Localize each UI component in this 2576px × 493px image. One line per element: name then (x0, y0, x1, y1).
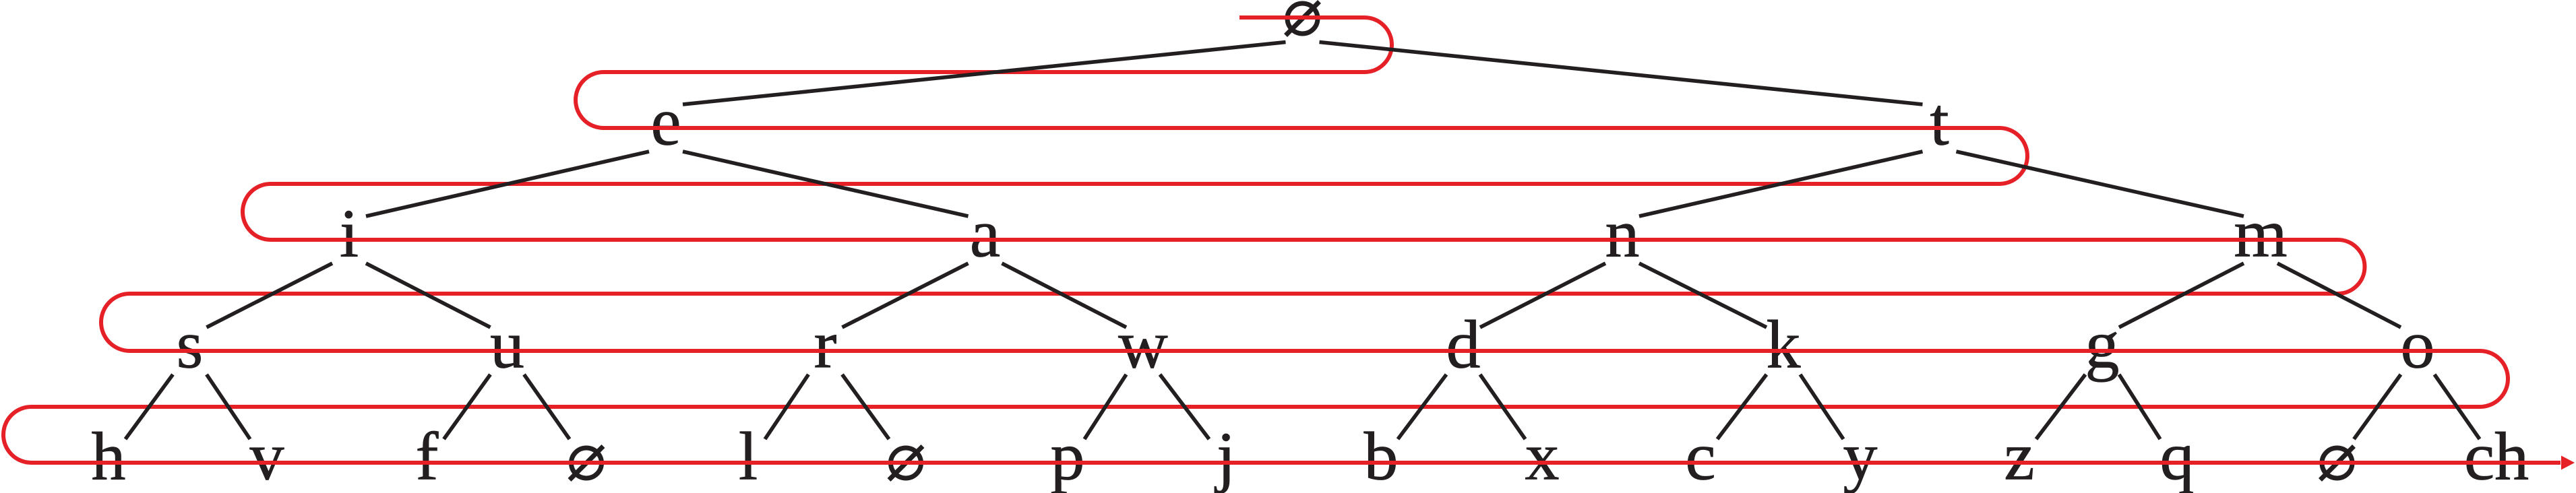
edge e-a (683, 152, 969, 216)
edge u-empty3 (524, 374, 570, 439)
edge i-s (207, 263, 333, 327)
edge root-e (683, 42, 1286, 105)
edge r-empty5 (842, 374, 890, 439)
edge t-m (1957, 152, 2244, 216)
edge g-q (2119, 374, 2160, 439)
svg-text:c: c (1685, 419, 1715, 493)
edge root-t (1320, 42, 1923, 105)
edge n-k (1639, 263, 1767, 327)
svg-text:y: y (1843, 419, 1878, 493)
svg-text:h: h (92, 419, 126, 493)
edge r-l (765, 374, 809, 439)
svg-text:n: n (1605, 196, 1640, 272)
svg-text:g: g (2085, 307, 2120, 383)
edge a-w (1002, 263, 1127, 327)
edge t-n (1639, 152, 1923, 216)
svg-text:f: f (416, 419, 439, 493)
edge d-b (1398, 374, 1446, 439)
svg-text:u: u (490, 307, 524, 383)
svg-text:x: x (1525, 419, 1560, 493)
svg-text:a: a (970, 196, 1000, 272)
svg-text:b: b (1364, 419, 1399, 493)
edge o-empty14 (2354, 374, 2401, 439)
svg-text:r: r (814, 307, 837, 383)
svg-text:t: t (1930, 84, 1949, 160)
edge g-z (2036, 374, 2085, 439)
node root (empty set symbol) (1286, 2, 1320, 36)
node leaf-empty-14 (empty set symbol) (2321, 447, 2354, 480)
edge d-x (1480, 374, 1525, 439)
edge m-g (2119, 263, 2244, 327)
svg-text:k: k (1767, 307, 1801, 383)
edge e-i (366, 152, 649, 216)
svg-text:v: v (250, 419, 284, 493)
svg-text:o: o (2401, 307, 2435, 383)
edge m-o (2277, 263, 2401, 327)
svg-text:d: d (1446, 307, 1481, 383)
edge s-h (125, 374, 173, 439)
node leaf-empty-5 (empty set symbol) (889, 447, 923, 480)
edge w-p (1084, 374, 1126, 439)
edge u-f (444, 374, 491, 439)
svg-text:q: q (2160, 419, 2195, 493)
red arrowhead (2561, 456, 2575, 470)
svg-text:m: m (2234, 196, 2287, 272)
edge w-j (1160, 374, 1209, 439)
svg-text:l: l (739, 419, 758, 493)
svg-text:e: e (650, 84, 681, 160)
svg-text:i: i (340, 196, 359, 272)
svg-text:j: j (1215, 419, 1235, 493)
edge n-d (1480, 263, 1605, 327)
edge i-u (366, 263, 491, 327)
svg-text:s: s (177, 307, 204, 383)
edge o-ch (2434, 374, 2480, 439)
svg-text:p: p (1051, 419, 1085, 493)
edge s-v (207, 374, 251, 439)
edge a-r (842, 263, 969, 327)
edge k-c (1717, 374, 1767, 439)
svg-text:w: w (1118, 307, 1168, 383)
edge k-y (1800, 374, 1843, 439)
node leaf-empty-3 (empty set symbol) (570, 447, 603, 480)
svg-text:z: z (2004, 419, 2034, 493)
